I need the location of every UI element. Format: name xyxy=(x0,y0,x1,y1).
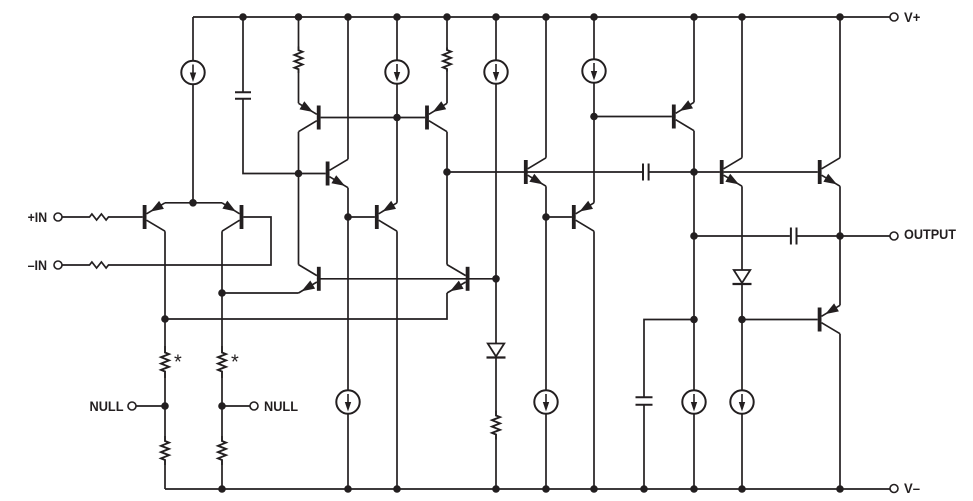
wire Q3-Q7 collector column xyxy=(298,132,300,265)
capacitor C2 xyxy=(643,164,649,181)
transistor Q7 xyxy=(299,265,321,293)
resistor R5 (null trim *) xyxy=(161,346,169,378)
wire bottom rail V- xyxy=(165,488,890,490)
transistor Q4 xyxy=(425,101,447,132)
label OUTPUT xyxy=(904,226,956,242)
capacitor C1 xyxy=(235,92,251,99)
transistor Q1 xyxy=(143,201,165,231)
node input emitter bus xyxy=(189,199,197,207)
terminal +IN xyxy=(54,213,62,221)
current source I3 xyxy=(484,60,507,83)
svg-text:*: * xyxy=(231,352,239,374)
transistor Q3 xyxy=(299,101,321,131)
wire Q6 base link xyxy=(348,216,375,218)
terminal NULL right xyxy=(250,402,258,410)
terminal OUTPUT xyxy=(890,232,898,240)
wire C4 branch xyxy=(644,320,694,490)
svg-text:NULL: NULL xyxy=(90,398,124,414)
wire Q9 emitter column xyxy=(545,186,547,489)
wire D1 branch xyxy=(495,279,497,489)
node Q11 base / CS4 xyxy=(590,113,598,121)
node output xyxy=(836,232,844,240)
node Q7 Q8 base rail / CS3 xyxy=(492,275,500,283)
wire Q14 emitter branch xyxy=(839,236,841,305)
wire Q5 emitter column xyxy=(347,188,349,489)
wire CS1 branch xyxy=(192,17,194,203)
transistor Q11 xyxy=(672,100,694,130)
transistor Q12 xyxy=(720,158,742,186)
current source I8 xyxy=(730,390,753,413)
resistor R3 xyxy=(295,47,303,74)
wire Q13 emitter link xyxy=(839,186,841,236)
node Q2 collector / Q7 emitter xyxy=(218,289,226,297)
wire Q7 emitter link xyxy=(222,292,299,294)
transistor Q5 xyxy=(326,159,348,187)
resistor R2 (-IN) xyxy=(88,262,110,268)
label V- xyxy=(904,480,920,496)
svg-text:V+: V+ xyxy=(904,9,920,25)
terminal -IN xyxy=(54,261,62,269)
wire CS3 branch xyxy=(495,17,497,279)
wire Q9 collector branch xyxy=(545,17,547,158)
node bottom rail junctions xyxy=(218,485,844,493)
diode D2 xyxy=(733,270,752,284)
wire OUTPUT lead xyxy=(840,235,890,237)
node NULL right xyxy=(218,402,226,410)
wire C1 branch xyxy=(243,17,326,174)
current source I4 xyxy=(582,59,605,82)
current source I1 xyxy=(181,61,204,84)
node Q1 collector / Q8 emitter xyxy=(161,315,169,323)
wire mid signal line xyxy=(447,171,720,173)
wire NULL right link xyxy=(222,405,250,407)
resistor R9 xyxy=(492,411,500,440)
node C4 branch xyxy=(690,316,698,324)
wire Q14 collector column xyxy=(839,334,841,489)
wire Q11 collector column xyxy=(693,131,695,489)
node C3 left xyxy=(690,232,698,240)
capacitor C4 xyxy=(636,397,653,405)
label -IN xyxy=(28,257,47,273)
wire Q4-Q8 collector column xyxy=(446,132,448,265)
transistor Q2 xyxy=(222,201,243,232)
wire top rail V+ xyxy=(193,16,890,18)
label asterisk left xyxy=(174,352,182,374)
wire Q14 base link xyxy=(742,319,818,321)
wire Q7 Q8 base rail xyxy=(317,278,496,280)
current source I5 xyxy=(336,390,359,413)
wire R2 branch xyxy=(446,17,448,103)
label NULL left xyxy=(90,398,124,414)
capacitor C3 xyxy=(791,228,797,245)
node NULL left xyxy=(161,402,169,410)
label +IN xyxy=(28,209,47,225)
node top rail junctions xyxy=(239,13,844,21)
node Q4 collector xyxy=(443,168,451,176)
wire C3 output line xyxy=(694,235,840,237)
node Q6 base xyxy=(344,213,352,221)
wire NULL left link xyxy=(136,405,165,407)
wire Q3 Q4 base rail xyxy=(321,117,426,119)
wire Q12 collector branch xyxy=(741,17,743,158)
transistor Q10 xyxy=(572,201,594,231)
svg-text:–IN: –IN xyxy=(28,257,47,273)
current source I6 xyxy=(534,390,557,413)
wire Q2 collector column xyxy=(221,231,223,489)
terminal V- xyxy=(890,485,898,493)
wire input emitter bus xyxy=(165,202,222,204)
svg-text:*: * xyxy=(174,352,182,374)
diode D1 xyxy=(487,344,506,358)
wire Q12 Q13 base link xyxy=(724,171,818,173)
label V+ xyxy=(904,9,920,25)
svg-text:V–: V– xyxy=(904,480,920,496)
wire +IN lead xyxy=(62,216,143,218)
wire Q8 emitter link xyxy=(165,293,447,319)
resistor R4 xyxy=(443,48,451,72)
wire Q12 emitter / D2 branch xyxy=(741,186,743,489)
wire Q6 collector column xyxy=(396,231,398,489)
wire R1 branch xyxy=(298,17,300,103)
wire Q13 collector branch xyxy=(839,17,841,158)
transistor Q9 xyxy=(524,158,546,186)
wire Q5 collector branch xyxy=(347,17,349,159)
resistor R6 (null trim *) xyxy=(218,346,226,378)
resistor R1 (+IN) xyxy=(88,214,110,220)
transistor Q8 xyxy=(447,265,470,293)
node Q10 base xyxy=(542,213,550,221)
wire Q11 emitter branch xyxy=(693,17,695,102)
terminal V+ xyxy=(890,13,898,21)
node D2 / Q14 base xyxy=(738,316,746,324)
wire Q11 base link xyxy=(594,116,672,118)
label asterisk right xyxy=(231,352,239,374)
svg-text:OUTPUT: OUTPUT xyxy=(904,226,956,242)
resistor R7 xyxy=(161,436,169,465)
node C2 / Q12 base xyxy=(690,168,698,176)
resistor R8 xyxy=(218,436,226,465)
transistor Q13 xyxy=(818,158,840,186)
transistor Q14 xyxy=(818,303,840,333)
svg-text:NULL: NULL xyxy=(264,398,298,414)
wire -IN lead xyxy=(62,217,271,265)
wire Q1 collector column xyxy=(164,231,166,489)
current source I2 xyxy=(385,60,408,83)
wire Q10 base link xyxy=(546,216,572,218)
wire Q10 collector column xyxy=(593,231,595,489)
svg-text:+IN: +IN xyxy=(28,209,47,225)
label NULL right xyxy=(264,398,298,414)
terminal NULL left xyxy=(128,402,136,410)
current source I7 xyxy=(682,390,705,413)
wire CS2 branch xyxy=(396,17,398,203)
node Q3 Q4 base rail xyxy=(393,114,401,122)
node Q5 base / C1 xyxy=(295,170,303,178)
transistor Q6 xyxy=(375,201,397,231)
wire CS4 branch xyxy=(593,17,595,203)
